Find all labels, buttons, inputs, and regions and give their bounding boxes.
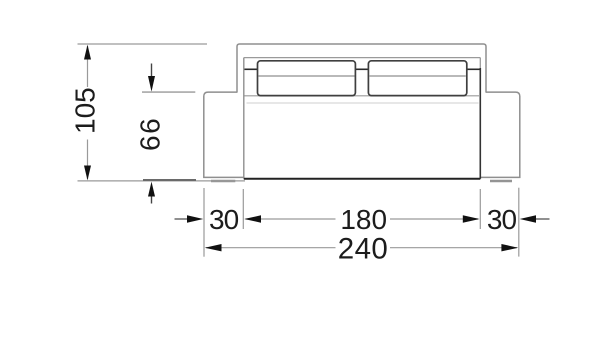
sofa backrest outline bbox=[237, 44, 486, 93]
240 left arrow bbox=[205, 244, 222, 251]
seat back line middle stub bbox=[355, 68, 368, 70]
240 dimension line bbox=[206, 247, 517, 249]
105 bottom arrow bbox=[84, 166, 91, 181]
left foot bbox=[211, 180, 235, 183]
seat bottom edge bbox=[244, 178, 480, 180]
svg-text:180: 180 bbox=[340, 204, 387, 235]
left cushion seam bbox=[259, 75, 355, 77]
105 dimension line bbox=[87, 46, 89, 179]
floor extension line bbox=[78, 180, 246, 182]
right cushion seam bbox=[369, 75, 465, 77]
left armrest bbox=[204, 92, 244, 177]
svg-text:30: 30 bbox=[487, 204, 517, 235]
105 top arrow bbox=[84, 45, 91, 60]
180 dimension line bbox=[246, 218, 479, 220]
66 floor extension segment (darker) bbox=[143, 179, 196, 181]
left cushion bbox=[258, 61, 356, 96]
seat interior right wall (lower dark) bbox=[479, 68, 481, 179]
right foot bbox=[490, 180, 512, 183]
svg-text:30: 30 bbox=[209, 204, 239, 235]
bottom extension line 3 bbox=[479, 189, 481, 229]
seat deck line bbox=[245, 95, 481, 97]
bottom extension line 2 bbox=[242, 189, 244, 229]
240 right arrow bbox=[501, 244, 518, 251]
right cushion bbox=[368, 61, 466, 96]
top extension line bbox=[78, 43, 208, 45]
seat front rail faint line bbox=[247, 102, 479, 104]
svg-text:105: 105 bbox=[70, 87, 101, 134]
seat interior top edge bbox=[244, 57, 480, 59]
seat back line right stub bbox=[467, 68, 480, 70]
180 left arrow bbox=[244, 215, 261, 222]
180 right arrow bbox=[463, 215, 480, 222]
bottom extension line 4 bbox=[518, 188, 520, 257]
30 left outside arrow bbox=[175, 218, 189, 220]
66 top extension line bbox=[142, 91, 195, 93]
seat interior right wall (upper gray) bbox=[479, 58, 481, 68]
30 right outside arrow bbox=[536, 218, 550, 220]
seat back line left stub bbox=[245, 68, 258, 70]
66 bottom arrow bbox=[151, 196, 153, 204]
66 top arrow bbox=[151, 64, 153, 78]
svg-text:240: 240 bbox=[338, 232, 388, 265]
svg-text:66: 66 bbox=[135, 117, 166, 151]
seat interior left wall bbox=[243, 58, 245, 179]
right armrest bbox=[480, 92, 520, 177]
bottom extension line 1 bbox=[203, 188, 205, 257]
